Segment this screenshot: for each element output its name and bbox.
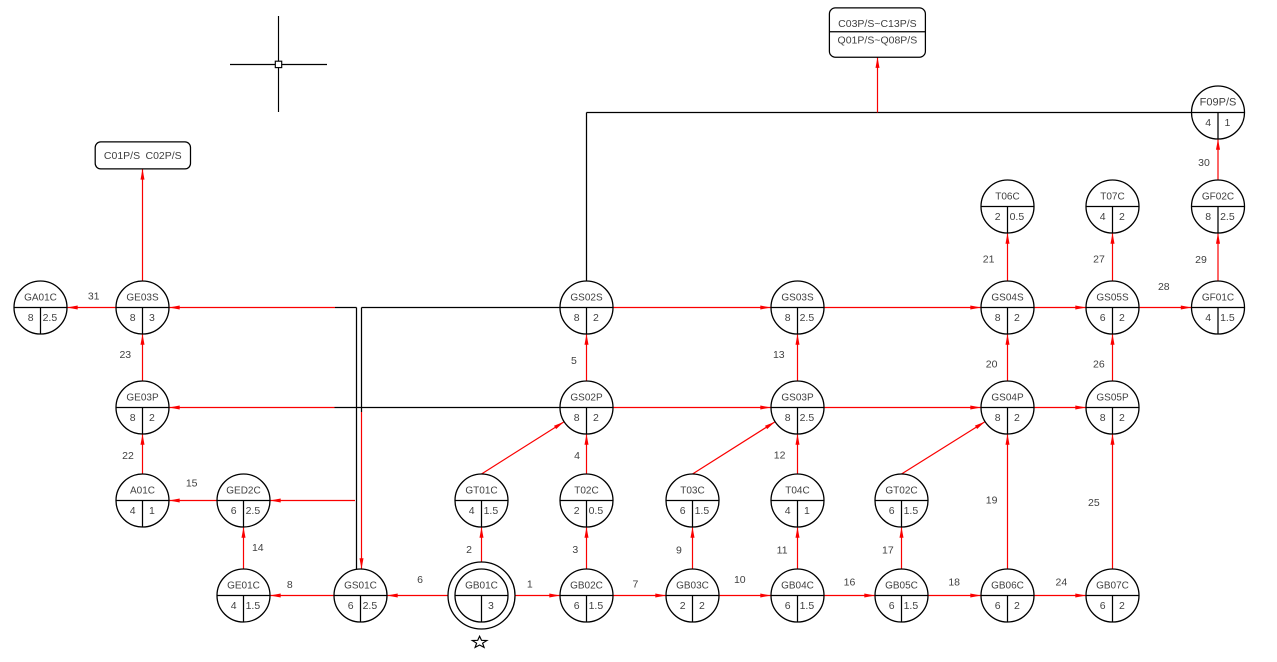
svg-text:2: 2 bbox=[593, 312, 599, 324]
svg-text:GT02C: GT02C bbox=[885, 486, 917, 497]
svg-text:1.5: 1.5 bbox=[904, 600, 919, 612]
svg-text:4: 4 bbox=[130, 505, 136, 517]
svg-text:GE03P: GE03P bbox=[126, 393, 159, 404]
svg-text:26: 26 bbox=[1093, 359, 1105, 371]
svg-text:0.5: 0.5 bbox=[1010, 211, 1025, 223]
svg-text:6: 6 bbox=[1100, 600, 1106, 612]
svg-text:6: 6 bbox=[417, 574, 423, 586]
svg-text:2: 2 bbox=[1014, 412, 1020, 424]
svg-text:GF02C: GF02C bbox=[1202, 192, 1234, 203]
svg-text:1: 1 bbox=[804, 505, 810, 517]
svg-text:16: 16 bbox=[844, 577, 856, 589]
svg-text:GE01C: GE01C bbox=[227, 581, 260, 592]
svg-text:24: 24 bbox=[1056, 577, 1068, 589]
svg-text:2: 2 bbox=[699, 600, 705, 612]
svg-text:20: 20 bbox=[986, 359, 998, 371]
svg-text:GB07C: GB07C bbox=[1096, 581, 1129, 592]
svg-text:8: 8 bbox=[785, 312, 791, 324]
svg-text:GS03P: GS03P bbox=[781, 393, 814, 404]
svg-text:2.5: 2.5 bbox=[1220, 211, 1235, 223]
svg-text:1: 1 bbox=[1224, 117, 1230, 129]
svg-text:2: 2 bbox=[1119, 600, 1125, 612]
svg-text:8: 8 bbox=[574, 412, 580, 424]
svg-text:Q01P/S~Q08P/S: Q01P/S~Q08P/S bbox=[838, 34, 918, 46]
svg-text:8: 8 bbox=[1205, 211, 1211, 223]
svg-text:1: 1 bbox=[149, 505, 155, 517]
svg-text:19: 19 bbox=[986, 494, 998, 506]
svg-text:2: 2 bbox=[593, 412, 599, 424]
svg-text:4: 4 bbox=[574, 450, 580, 462]
svg-text:GB06C: GB06C bbox=[991, 581, 1024, 592]
svg-text:GB04C: GB04C bbox=[781, 581, 814, 592]
svg-text:GT01C: GT01C bbox=[465, 486, 497, 497]
svg-text:2: 2 bbox=[1014, 600, 1020, 612]
svg-text:2.5: 2.5 bbox=[246, 505, 261, 517]
svg-text:6: 6 bbox=[574, 600, 580, 612]
svg-text:6: 6 bbox=[680, 505, 686, 517]
svg-text:10: 10 bbox=[734, 574, 746, 586]
svg-text:1.5: 1.5 bbox=[904, 505, 919, 517]
svg-text:1.5: 1.5 bbox=[589, 600, 604, 612]
svg-text:T06C: T06C bbox=[995, 192, 1019, 203]
svg-text:GS03S: GS03S bbox=[781, 293, 814, 304]
svg-text:4: 4 bbox=[1205, 117, 1211, 129]
svg-text:9: 9 bbox=[676, 544, 682, 556]
svg-text:13: 13 bbox=[773, 349, 785, 361]
svg-text:T07C: T07C bbox=[1100, 192, 1124, 203]
svg-text:23: 23 bbox=[119, 349, 131, 361]
svg-text:8: 8 bbox=[1100, 412, 1106, 424]
svg-text:2: 2 bbox=[1014, 312, 1020, 324]
svg-text:6: 6 bbox=[785, 600, 791, 612]
svg-text:4: 4 bbox=[785, 505, 791, 517]
svg-text:6: 6 bbox=[889, 505, 895, 517]
svg-text:2.5: 2.5 bbox=[363, 600, 378, 612]
svg-text:GB05C: GB05C bbox=[885, 581, 918, 592]
svg-text:GA01C: GA01C bbox=[24, 293, 57, 304]
svg-text:3: 3 bbox=[572, 544, 578, 556]
svg-text:2: 2 bbox=[1119, 211, 1125, 223]
svg-text:6: 6 bbox=[1100, 312, 1106, 324]
svg-text:A01C: A01C bbox=[130, 486, 155, 497]
svg-text:21: 21 bbox=[983, 253, 995, 265]
svg-text:6: 6 bbox=[231, 505, 237, 517]
svg-text:2.5: 2.5 bbox=[43, 312, 58, 324]
svg-text:4: 4 bbox=[231, 600, 237, 612]
svg-text:6: 6 bbox=[889, 600, 895, 612]
svg-text:1.5: 1.5 bbox=[800, 600, 815, 612]
svg-text:F09P/S: F09P/S bbox=[1200, 97, 1237, 109]
svg-text:GB02C: GB02C bbox=[570, 581, 603, 592]
svg-text:GB01C: GB01C bbox=[465, 581, 498, 592]
svg-text:2: 2 bbox=[995, 211, 1001, 223]
svg-text:C01P/S C02P/S: C01P/S C02P/S bbox=[104, 150, 182, 162]
svg-text:27: 27 bbox=[1093, 253, 1105, 265]
svg-text:18: 18 bbox=[948, 577, 960, 589]
svg-text:T02C: T02C bbox=[574, 486, 598, 497]
svg-text:8: 8 bbox=[785, 412, 791, 424]
svg-text:28: 28 bbox=[1158, 281, 1170, 293]
svg-text:1: 1 bbox=[527, 578, 533, 590]
svg-text:4: 4 bbox=[1205, 312, 1211, 324]
svg-text:2: 2 bbox=[466, 544, 472, 556]
svg-text:11: 11 bbox=[777, 544, 788, 556]
svg-text:1.5: 1.5 bbox=[695, 505, 710, 517]
svg-text:2: 2 bbox=[149, 412, 155, 424]
svg-text:2: 2 bbox=[574, 505, 580, 517]
svg-text:1.5: 1.5 bbox=[1220, 312, 1235, 324]
svg-text:6: 6 bbox=[348, 600, 354, 612]
svg-text:T03C: T03C bbox=[680, 486, 704, 497]
svg-text:2: 2 bbox=[680, 600, 686, 612]
svg-text:12: 12 bbox=[774, 450, 786, 462]
svg-text:2.5: 2.5 bbox=[800, 312, 815, 324]
svg-text:31: 31 bbox=[88, 291, 100, 303]
svg-text:8: 8 bbox=[287, 579, 293, 591]
svg-text:GS02S: GS02S bbox=[570, 293, 603, 304]
svg-text:2: 2 bbox=[1119, 412, 1125, 424]
svg-text:17: 17 bbox=[882, 544, 894, 556]
svg-text:C03P/S~C13P/S: C03P/S~C13P/S bbox=[838, 18, 917, 30]
svg-text:7: 7 bbox=[632, 578, 638, 590]
svg-text:2: 2 bbox=[1119, 312, 1125, 324]
svg-text:8: 8 bbox=[574, 312, 580, 324]
svg-text:GED2C: GED2C bbox=[226, 486, 260, 497]
svg-text:GB03C: GB03C bbox=[676, 581, 709, 592]
svg-text:4: 4 bbox=[469, 505, 475, 517]
svg-text:GS04S: GS04S bbox=[991, 293, 1024, 304]
svg-text:GE03S: GE03S bbox=[126, 293, 159, 304]
svg-text:GS02P: GS02P bbox=[570, 393, 603, 404]
svg-text:2.5: 2.5 bbox=[800, 412, 815, 424]
svg-text:25: 25 bbox=[1088, 497, 1100, 509]
svg-text:3: 3 bbox=[149, 312, 155, 324]
svg-text:8: 8 bbox=[995, 412, 1001, 424]
svg-text:T04C: T04C bbox=[785, 486, 809, 497]
svg-text:4: 4 bbox=[1100, 211, 1106, 223]
svg-text:30: 30 bbox=[1198, 157, 1210, 169]
svg-text:15: 15 bbox=[186, 478, 198, 490]
svg-text:3: 3 bbox=[488, 600, 494, 612]
svg-text:GF01C: GF01C bbox=[1202, 293, 1234, 304]
svg-text:8: 8 bbox=[995, 312, 1001, 324]
svg-text:0.5: 0.5 bbox=[589, 505, 604, 517]
svg-text:GS05S: GS05S bbox=[1096, 293, 1129, 304]
svg-text:22: 22 bbox=[122, 450, 134, 462]
svg-text:29: 29 bbox=[1195, 254, 1207, 266]
svg-text:8: 8 bbox=[28, 312, 34, 324]
svg-text:5: 5 bbox=[571, 355, 577, 367]
svg-text:6: 6 bbox=[995, 600, 1001, 612]
svg-text:GS01C: GS01C bbox=[344, 581, 377, 592]
svg-text:1.5: 1.5 bbox=[484, 505, 499, 517]
svg-text:14: 14 bbox=[252, 542, 264, 554]
svg-text:8: 8 bbox=[130, 312, 136, 324]
svg-text:GS04P: GS04P bbox=[991, 393, 1024, 404]
svg-text:1.5: 1.5 bbox=[246, 600, 261, 612]
svg-text:8: 8 bbox=[130, 412, 136, 424]
svg-text:GS05P: GS05P bbox=[1096, 393, 1129, 404]
